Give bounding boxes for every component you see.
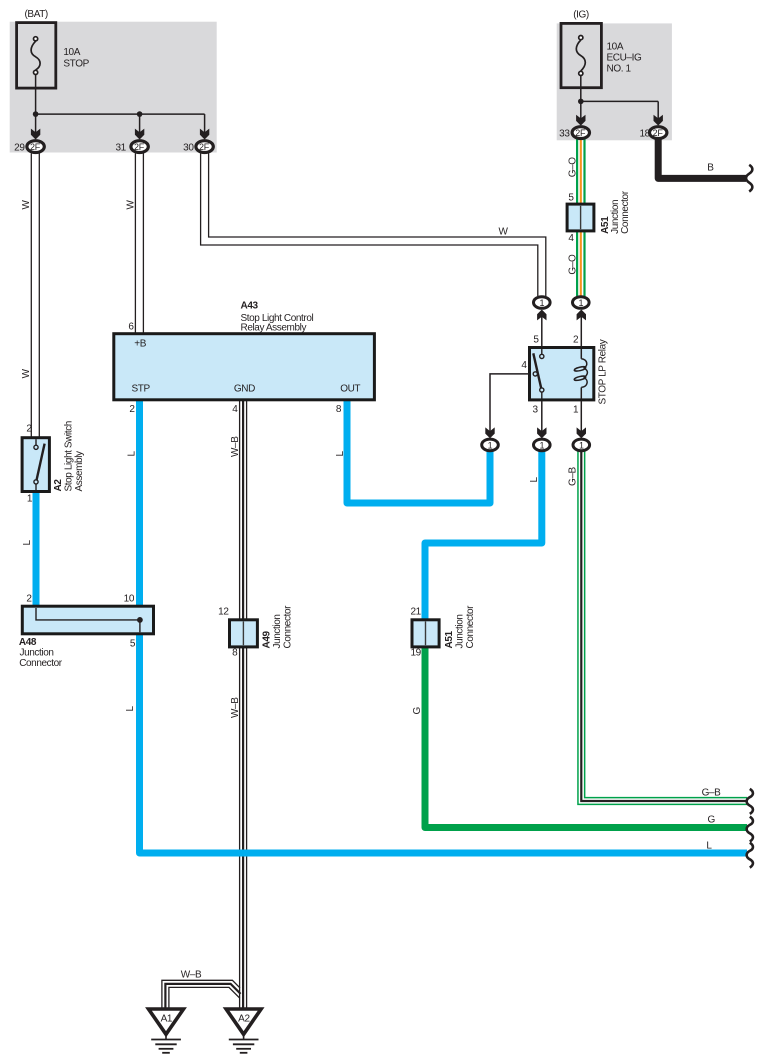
svg-text:L: L	[127, 451, 138, 457]
oval 1 below relay pin4	[482, 439, 499, 451]
wire G-O from A51 to relay pin2 connector	[577, 231, 584, 296]
svg-text:W: W	[498, 227, 508, 238]
continuation curl B	[746, 165, 752, 192]
svg-text:A43: A43	[241, 301, 259, 312]
svg-text:4: 4	[521, 360, 527, 371]
wire fuse to bus	[35, 75, 37, 114]
wire L from A43 OUT to relay pin4 connector	[347, 400, 490, 503]
svg-text:1: 1	[539, 440, 544, 450]
wire G from A51 to right edge	[425, 647, 747, 828]
svg-text:31: 31	[115, 143, 126, 154]
svg-text:1: 1	[578, 298, 583, 308]
wire L from A2 switch to A48	[33, 492, 40, 607]
svg-text:12: 12	[218, 607, 229, 618]
relay pin5 wire up	[541, 316, 543, 348]
svg-text:W–B: W–B	[230, 436, 241, 457]
A51 junction connector box (top)	[567, 204, 594, 231]
svg-text:OUT: OUT	[340, 384, 360, 395]
A43 Stop Light Control Relay Assembly box	[114, 334, 375, 400]
oval 2F pin29	[27, 141, 44, 153]
svg-text:1: 1	[27, 494, 33, 505]
svg-text:A2: A2	[238, 1014, 250, 1025]
svg-text:10: 10	[124, 594, 135, 605]
wire B from 18	[658, 139, 746, 179]
svg-text:33: 33	[559, 129, 570, 140]
junction block 2F (left, BAT) gray background	[10, 22, 217, 153]
svg-text:2F: 2F	[134, 142, 145, 152]
A48 internal node dot	[137, 617, 143, 623]
oval 1 below relay pin1	[573, 439, 590, 451]
wire drop to pin 31	[139, 114, 141, 133]
svg-text:W–B: W–B	[181, 970, 202, 981]
svg-text:G–O: G–O	[568, 157, 579, 178]
svg-text:W: W	[21, 368, 32, 378]
relay pin4 wire to connector	[490, 374, 530, 433]
svg-text:L: L	[335, 451, 346, 457]
oval 2F pin30	[196, 141, 213, 153]
wire G-B from relay pin1 to right edge	[578, 451, 747, 805]
svg-text:1: 1	[539, 298, 544, 308]
svg-text:1: 1	[579, 440, 584, 450]
svg-text:1: 1	[488, 440, 493, 450]
svg-text:STOP LP Relay: STOP LP Relay	[598, 339, 609, 404]
fuse ECU-IG 10A outline	[561, 23, 601, 87]
arrow into 30	[200, 129, 209, 140]
ground A1	[149, 1009, 184, 1053]
svg-text:Assembly: Assembly	[74, 451, 85, 492]
A48 internal wire	[36, 608, 140, 632]
arrow into pin1 connector	[577, 427, 586, 438]
svg-text:L: L	[706, 841, 712, 852]
svg-text:2F: 2F	[199, 142, 210, 152]
relay pin2 wire up	[580, 316, 582, 348]
wire drop to pin 18	[657, 101, 659, 119]
svg-text:W–B: W–B	[230, 697, 241, 718]
svg-text:2: 2	[26, 424, 32, 435]
svg-text:3: 3	[533, 405, 539, 416]
svg-text:W: W	[126, 200, 137, 210]
svg-text:2F: 2F	[653, 128, 664, 138]
svg-text:19: 19	[410, 648, 421, 659]
svg-text:2F: 2F	[30, 142, 41, 152]
arrow up into pin5 connector	[537, 310, 546, 321]
svg-text:L: L	[529, 477, 540, 483]
svg-text:29: 29	[14, 143, 25, 154]
svg-text:+B: +B	[134, 339, 146, 350]
wire W from 29 to A2 switch	[31, 154, 39, 438]
node dot	[137, 111, 143, 117]
svg-text:A2: A2	[53, 479, 64, 492]
fuse STOP symbol	[31, 37, 40, 75]
wire W-B from A49 down to ground A2	[240, 647, 247, 1009]
svg-text:4: 4	[232, 404, 238, 415]
svg-text:(BAT): (BAT)	[25, 9, 48, 20]
svg-text:L: L	[22, 540, 33, 546]
svg-text:10A: 10A	[63, 47, 80, 58]
wire L from relay pin3 connector to A51	[425, 451, 542, 620]
svg-text:1: 1	[573, 405, 579, 416]
svg-text:Junction: Junction	[272, 614, 283, 648]
arrow into 33	[576, 115, 585, 126]
relay pin1 wire down	[580, 401, 582, 433]
A2 switch symbol	[34, 439, 45, 490]
svg-text:Connector: Connector	[283, 605, 294, 649]
svg-text:Junction: Junction	[454, 614, 465, 648]
svg-text:4: 4	[568, 233, 574, 244]
svg-text:W: W	[21, 200, 32, 210]
svg-text:5: 5	[568, 193, 574, 204]
svg-text:B: B	[707, 163, 714, 174]
wire drop to pin 33	[580, 101, 582, 119]
oval 1 above relay pin2	[573, 297, 590, 309]
svg-text:A49: A49	[262, 631, 273, 649]
svg-text:Relay Assembly: Relay Assembly	[241, 322, 307, 333]
wire W-B from A43 GND down to A49	[240, 400, 247, 620]
svg-text:A51: A51	[444, 631, 455, 649]
svg-text:2F: 2F	[575, 128, 586, 138]
relay coil	[574, 349, 588, 399]
svg-text:G–O: G–O	[568, 254, 579, 275]
wire W from 30 to relay pin5 connector	[201, 154, 546, 297]
A2 stop light switch box	[22, 438, 49, 492]
continuation curl G-B	[747, 789, 753, 814]
svg-text:G: G	[708, 815, 716, 826]
svg-text:G–B: G–B	[702, 788, 722, 799]
A48 junction connector box	[22, 606, 153, 634]
svg-text:10A: 10A	[607, 42, 624, 53]
node dot	[578, 99, 584, 105]
junction block 2F (right, IG) gray background	[557, 23, 672, 140]
svg-text:G: G	[412, 707, 423, 715]
arrow into pin4 connector	[485, 427, 494, 438]
svg-text:Connector: Connector	[19, 658, 63, 669]
ground A2	[226, 1009, 261, 1053]
wire drop to pin 29	[35, 114, 37, 133]
node dot	[33, 111, 39, 117]
svg-text:(IG): (IG)	[573, 10, 589, 21]
svg-text:5: 5	[533, 335, 539, 346]
wire fuse to bus (right)	[580, 76, 582, 102]
continuation curl G	[747, 817, 753, 842]
svg-text:8: 8	[232, 648, 238, 659]
oval 1 above relay pin5	[534, 297, 551, 309]
svg-text:STOP: STOP	[63, 59, 89, 70]
svg-text:30: 30	[183, 143, 194, 154]
wire W-B branch to ground A1	[162, 980, 241, 1009]
wire drop to pin 30	[204, 114, 206, 133]
svg-text:Stop Light Switch: Stop Light Switch	[64, 421, 75, 491]
svg-text:ECU–IG: ECU–IG	[607, 53, 642, 64]
fuse STOP 10A outline	[17, 23, 56, 89]
svg-text:2: 2	[26, 594, 32, 605]
relay switch	[533, 349, 544, 399]
arrow into 18	[654, 115, 663, 126]
svg-text:2: 2	[129, 404, 135, 415]
arrow into 29	[31, 129, 40, 140]
svg-text:L: L	[125, 706, 136, 712]
wire L from A43 STP through A48 to right edge	[140, 400, 748, 853]
svg-text:A1: A1	[161, 1014, 173, 1025]
arrow into 31	[135, 129, 144, 140]
A51 junction connector box (middle)	[412, 620, 439, 647]
oval 2F pin18	[650, 127, 667, 139]
oval 1 below relay pin3	[534, 439, 551, 451]
STOP LP Relay box	[530, 348, 594, 400]
svg-text:2: 2	[573, 335, 579, 346]
svg-text:Connector: Connector	[465, 605, 476, 649]
svg-text:Connector: Connector	[620, 190, 631, 234]
arrow into pin3 connector	[537, 427, 546, 438]
svg-text:G–B: G–B	[568, 466, 579, 486]
relay pin3 wire down	[541, 401, 543, 433]
svg-text:6: 6	[128, 322, 134, 333]
svg-text:A48: A48	[19, 637, 37, 648]
svg-text:21: 21	[410, 607, 421, 618]
wire W from 31 to A43 +B	[135, 154, 143, 334]
svg-text:8: 8	[336, 404, 342, 415]
wire G-O from 33 to A51	[577, 139, 584, 204]
fuse ECU-IG symbol	[576, 36, 585, 76]
svg-text:NO. 1: NO. 1	[607, 64, 632, 75]
svg-text:GND: GND	[234, 384, 255, 395]
arrow up into pin2 connector	[577, 310, 586, 321]
bus line right block	[581, 100, 658, 102]
svg-text:5: 5	[130, 639, 136, 650]
svg-text:18: 18	[639, 129, 650, 140]
svg-text:STP: STP	[132, 384, 151, 395]
A49 junction connector box	[230, 620, 258, 647]
oval 2F pin31	[131, 141, 148, 153]
bus line in left block	[36, 113, 205, 115]
continuation curl L	[747, 843, 753, 868]
oval 2F pin33	[572, 127, 589, 139]
